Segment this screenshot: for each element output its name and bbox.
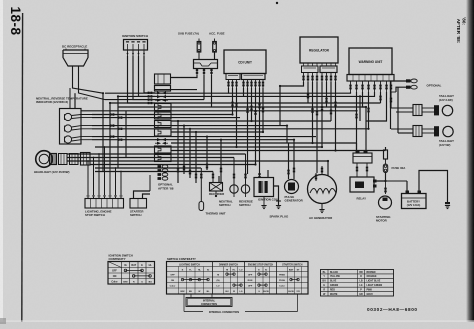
- page left margin highlight: [0, 0, 3, 329]
- wire vert x294: [293, 140, 295, 179]
- svg-text:OFF: OFF: [248, 285, 253, 287]
- wire vert x190: [189, 129, 191, 178]
- svg-text:WARNING UNIT: WARNING UNIT: [359, 60, 383, 64]
- wire optional feed 1: [391, 81, 407, 108]
- svg-text:RED: RED: [330, 289, 335, 291]
- wire ignition pin4 to harness: [144, 56, 155, 93]
- wire warning w2: [356, 92, 358, 153]
- svg-text:BLUE: BLUE: [330, 281, 337, 283]
- svg-text:BLACK: BLACK: [330, 271, 338, 274]
- wire regulator w3: [312, 82, 314, 143]
- table SWITCH CONTINUITY grid: [167, 262, 309, 295]
- connector taillight 2: [413, 126, 422, 137]
- svg-text:CONNECTION: CONNECTION: [201, 303, 217, 306]
- wire regulator w4: [316, 82, 318, 173]
- wire bulb1 b: [72, 117, 92, 120]
- inline bullets on CDI drop wires: [235, 103, 237, 105]
- svg-text:HEADLIGHT (12V 45/45W): HEADLIGHT (12V 45/45W): [34, 170, 70, 174]
- wire CDI w7: [255, 88, 257, 165]
- module WARNING UNIT body: [349, 48, 392, 75]
- svg-text:HL: HL: [149, 264, 153, 267]
- svg-text:ON: ON: [113, 275, 117, 278]
- wire bus y89.6: [155, 89, 197, 91]
- svg-text:LO: LO: [216, 285, 219, 287]
- svg-text:ACC. FUSE: ACC. FUSE: [209, 32, 225, 36]
- svg-text:FREE: FREE: [279, 274, 285, 276]
- svg-text:BAT: BAT: [131, 264, 136, 267]
- svg-text:SWITCH CONTINUITY: SWITCH CONTINUITY: [167, 257, 196, 261]
- headlight connector block 3: [81, 153, 91, 166]
- inline bullets on ignition wires: [148, 92, 150, 94]
- regulator connector blocks: [302, 66, 319, 73]
- wire fuse30A to relay: [377, 173, 386, 182]
- wire bus y96.4: [118, 95, 230, 97]
- wire bus y107 right: [327, 106, 367, 108]
- wire bus y143 right: [313, 142, 357, 144]
- svg-text:LB: LB: [359, 281, 362, 283]
- wire warning to relay: [356, 143, 358, 153]
- switch NEUTRAL SWITCH lead: [233, 158, 235, 185]
- fuse holder pins: [196, 69, 198, 76]
- wire bus y96.4 right: [244, 95, 361, 97]
- svg-text:BU: BU: [225, 291, 229, 293]
- module REGULATOR body: [300, 37, 338, 63]
- table IGNITION SWITCH CONTINUITY grid: [108, 262, 155, 285]
- pulse generator leads: [288, 179, 290, 181]
- wire vert x126: [125, 111, 127, 158]
- connector stack low A: [155, 146, 172, 153]
- wire bus y93.2 right: [229, 92, 341, 94]
- lamp TAILLIGHT 1 bulb: [422, 107, 434, 109]
- svg-text:MOTOR: MOTOR: [376, 219, 388, 223]
- connector DC RECEPTACLE body: [63, 50, 88, 66]
- wire fuse leads: [198, 52, 200, 60]
- wire CDI w8: [259, 88, 261, 178]
- svg-text:STOP SWITCH: STOP SWITCH: [85, 213, 105, 217]
- wire CDI w5: [247, 88, 249, 174]
- switch LIGHTING ENGINE STOP SWITCH connector: [85, 199, 124, 209]
- svg-text:RECTIFIER: RECTIFIER: [209, 192, 225, 196]
- wire bus y110.8: [81, 110, 357, 112]
- wire bus y147 right: [237, 146, 323, 148]
- svg-text:INDICATOR (12V/3W×3): INDICATOR (12V/3W×3): [36, 100, 68, 104]
- svg-text:Color: Color: [170, 285, 176, 287]
- connector stack mid B: [155, 112, 172, 119]
- transformer IGNITION COIL body: [254, 178, 274, 197]
- wire bulb2 b: [72, 129, 92, 130]
- wire ignition pin2 to harness: [133, 56, 155, 100]
- svg-text:G: G: [141, 282, 143, 284]
- svg-text:TAILLIGHT: TAILLIGHT: [439, 94, 454, 98]
- wire regulator w8: [335, 82, 337, 151]
- wire bus y125.6: [92, 125, 287, 127]
- rectifier leads: [212, 172, 214, 183]
- wire warning w8: [390, 92, 392, 108]
- svg-text:00302—HA8—6800: 00302—HA8—6800: [367, 307, 418, 312]
- wire vert x398 tail: [397, 87, 399, 133]
- wire bus y164.5: [90, 164, 256, 166]
- svg-text:BR: BR: [359, 272, 363, 274]
- svg-text:OFF: OFF: [112, 270, 117, 273]
- wire battery negative to ground: [419, 171, 448, 203]
- CDI connector blocks: [226, 74, 240, 80]
- wire warning w7: [366, 92, 387, 121]
- note INTERNAL CONNECTION small box: [186, 298, 232, 307]
- wire regulator w5: [321, 82, 323, 147]
- wire fuse pin1 down: [171, 75, 197, 78]
- svg-text:DIMMER SWITCH: DIMMER SWITCH: [219, 264, 238, 266]
- wire bus y157.5: [67, 157, 234, 159]
- svg-text:GREEN: GREEN: [330, 285, 339, 287]
- wire bus y121: [171, 120, 252, 122]
- wire fuse pin3 down: [211, 75, 213, 107]
- wire warning w4: [368, 92, 370, 129]
- headlight connector block 1: [59, 154, 68, 165]
- connector stack mid A: [155, 104, 172, 111]
- switch continuity link dots: [181, 278, 183, 280]
- wire vert x184: [183, 126, 185, 174]
- wire bus y161: [67, 160, 328, 162]
- wire vert x366: [365, 107, 367, 153]
- wire bus y171.5: [95, 171, 213, 173]
- wire vert x118: [117, 96, 119, 168]
- wire bus y150.5: [171, 150, 336, 152]
- wire bus y117.6: [92, 117, 240, 119]
- wire ignition pin1 to harness: [128, 56, 156, 103]
- wire regulator w2: [307, 82, 309, 103]
- svg-text:BU: BU: [189, 291, 193, 293]
- wire bus y143: [171, 142, 313, 144]
- indicator bulb 3 (temperature): [64, 136, 71, 143]
- diode RECTIFIER body: [210, 183, 223, 192]
- switch REVERSE SWITCH body: [241, 185, 249, 193]
- indicator bulb 1 (neutral): [64, 113, 71, 120]
- spark plug symbol: [276, 200, 281, 202]
- generator PULSE GENERATOR body: [285, 180, 299, 194]
- wire warning w5: [360, 92, 375, 96]
- svg-text:G: G: [323, 285, 325, 287]
- inline bullets on engine drop wires: [287, 170, 289, 172]
- motor STARTING MOTOR body: [379, 196, 392, 209]
- ignition coil ground: [263, 197, 265, 206]
- relay upper leads down: [356, 163, 358, 177]
- wire vert x103: [102, 93, 104, 171]
- connector stack mid D: [155, 129, 172, 136]
- switch NEUTRAL SWITCH body: [230, 185, 238, 193]
- svg-text:LIGHTING SWITCH: LIGHTING SWITCH: [179, 264, 200, 266]
- internal connection bracket ticks: [190, 294, 192, 298]
- wire bus y93.2: [105, 92, 215, 94]
- wire bus y132: [171, 131, 263, 133]
- wire vert x221: [220, 140, 222, 183]
- svg-text:INTERNAL CONNECTION: INTERNAL CONNECTION: [209, 311, 239, 314]
- wire fuse pin2 down: [203, 75, 205, 100]
- wire DC receptacle lead 2: [79, 66, 106, 100]
- wire CDI w6: [251, 88, 253, 121]
- svg-text:ENGINE STOP SWITCH: ENGINE STOP SWITCH: [248, 264, 274, 266]
- connector bullets triangle row: [157, 91, 161, 94]
- svg-text:AFTER ’88: AFTER ’88: [158, 187, 174, 191]
- fuse holder block: [194, 60, 218, 69]
- svg-text:SUB FUSE (7A): SUB FUSE (7A): [178, 32, 199, 36]
- headlight connector block 2: [70, 154, 79, 165]
- wire CDI w2: [232, 88, 234, 115]
- warning unit connector strip: [347, 75, 394, 82]
- regulator pins: [303, 63, 305, 66]
- speck top middle: [276, 2, 278, 4]
- generator AC GENERATOR body: [308, 175, 337, 204]
- svg-text:CDI UNIT: CDI UNIT: [238, 61, 252, 65]
- wire bulb feeds from top: [69, 88, 71, 109]
- svg-text:SWITCH: SWITCH: [239, 203, 250, 207]
- wire relay to battery: [386, 180, 408, 182]
- wire regulator w6: [326, 82, 328, 107]
- lighting switch wires down: [87, 161, 89, 199]
- page right dark edge: [466, 0, 474, 329]
- svg-text:18-8: 18-8: [8, 6, 23, 35]
- wire bus y168: [95, 167, 201, 169]
- svg-text:GR: GR: [359, 294, 363, 296]
- svg-text:(12V 12Ah): (12V 12Ah): [407, 203, 421, 207]
- relay output terminals: [373, 180, 377, 183]
- wire to relay lead2: [366, 147, 368, 153]
- wire bus y154: [67, 153, 246, 155]
- wire CDI w1: [215, 88, 229, 93]
- connector bullets triangle row 2: [157, 138, 161, 141]
- svg-text:LO: LO: [239, 269, 242, 271]
- fuse ACC FUSE body: [214, 39, 216, 42]
- svg-text:LG: LG: [359, 285, 362, 287]
- wire bus y150.5 right: [336, 150, 386, 152]
- starter switch wires: [134, 191, 151, 199]
- page bottom light scratch: [0, 321, 474, 322]
- wire bulb3 a: [72, 137, 92, 138]
- page divider line: [21, 13, 24, 326]
- wire DC receptacle lead 1: [73, 66, 104, 93]
- wire junction dots: [102, 92, 104, 94]
- table wire color code legend: [321, 270, 394, 297]
- svg-text:BATTERY: BATTERY: [407, 200, 420, 204]
- svg-text:SWITCH: SWITCH: [130, 213, 141, 217]
- svg-text:OPTIONAL: OPTIONAL: [427, 84, 442, 88]
- note INTERNAL CONNECTION bracket: [184, 311, 203, 313]
- fuse FUSE 30A body: [385, 147, 387, 150]
- CDI pins with bullets: [228, 80, 230, 89]
- svg-text:REGULATOR: REGULATOR: [309, 49, 330, 53]
- svg-text:Color: Color: [279, 285, 285, 287]
- connector optional bullets: [406, 79, 411, 82]
- svg-text:BROWN: BROWN: [367, 272, 376, 274]
- wire taillight upper feed: [391, 107, 414, 109]
- wire bus y128.8: [92, 128, 369, 130]
- wire vert x207: [206, 137, 208, 170]
- bottom left corner mark: [0, 318, 6, 324]
- lamp HEADLIGHT reflector: [36, 151, 53, 168]
- svg-text:W: W: [198, 291, 200, 293]
- svg-text:STARTER SWITCH: STARTER SWITCH: [282, 263, 303, 266]
- wire vert x391 tail: [390, 81, 392, 129]
- wire bulb1 a: [72, 115, 92, 116]
- wire taillight2 wires: [369, 128, 414, 130]
- wire vert x196: [195, 132, 197, 183]
- wire bulb3 b: [72, 140, 92, 141]
- wire vert x360: [359, 96, 361, 121]
- wire battery positive: [406, 181, 408, 191]
- AC generator ground: [321, 204, 323, 210]
- svg-text:IG: IG: [265, 269, 268, 271]
- svg-text:IG: IG: [124, 264, 127, 267]
- fuse SUB FUSE body: [198, 39, 200, 42]
- svg-text:ON: ON: [171, 280, 175, 282]
- wire bus y114.5: [92, 114, 233, 116]
- wire regulator w1: [280, 82, 304, 86]
- inline bullets on warning drops: [355, 114, 357, 116]
- svg-text:RELAY: RELAY: [357, 197, 367, 201]
- lighting switch pin labels: [87, 195, 90, 196]
- switch continuity sub columns: [178, 267, 180, 295]
- svg-text:GENERATOR: GENERATOR: [285, 199, 304, 203]
- svg-text:Y/R: Y/R: [296, 291, 300, 293]
- lamp cluster body: [60, 109, 82, 145]
- wire taillight1 wires: [391, 107, 413, 109]
- svg-text:O: O: [360, 276, 362, 278]
- wire coil HT lead to spark plug: [274, 186, 279, 201]
- svg-text:SWITCH: SWITCH: [219, 203, 230, 207]
- svg-text:AC GENERATOR: AC GENERATOR: [309, 216, 333, 220]
- svg-text:BL/W: BL/W: [263, 291, 268, 293]
- battery terminals: [406, 191, 410, 194]
- inline bullets on left bus: [110, 113, 112, 115]
- svg-text:PUSH: PUSH: [279, 280, 285, 282]
- svg-text:WHITE: WHITE: [330, 294, 338, 296]
- wire vert x178: [177, 121, 179, 183]
- svg-text:LIGHT BLUE: LIGHT BLUE: [367, 281, 381, 283]
- relay RELAY body: [350, 177, 374, 192]
- wire warning w1: [340, 92, 351, 93]
- svg-text:BU: BU: [149, 282, 153, 284]
- battery BATTERY body: [402, 194, 427, 209]
- wire vert x110: [109, 103, 111, 165]
- lamp TAILLIGHT 2 bulb: [422, 128, 434, 130]
- wire warning w3: [363, 92, 367, 107]
- svg-text:(N): (N): [216, 280, 219, 282]
- svg-text:LG: LG: [240, 291, 243, 293]
- svg-text:TAILLIGHT: TAILLIGHT: [439, 139, 454, 143]
- connector taillight 1: [413, 105, 422, 116]
- connector stack upper (6P): [155, 74, 171, 84]
- switch REVERSE SWITCH lead: [245, 154, 247, 185]
- svg-text:(12V 3.4W): (12V 3.4W): [439, 98, 453, 102]
- headlight bulb base: [50, 154, 57, 165]
- warning unit pins: [350, 81, 352, 92]
- wire stack to bus y89.6: [155, 89, 171, 91]
- wire bus y139.7: [92, 139, 294, 141]
- svg-text:GRAY: GRAY: [367, 293, 374, 296]
- svg-text:RUN: RUN: [248, 280, 253, 282]
- wire CDI w3: [236, 88, 238, 147]
- svg-text:IGNITION SWITCH: IGNITION SWITCH: [122, 34, 148, 38]
- svg-text:OFF: OFF: [248, 274, 253, 276]
- wire vert x288: [288, 143, 290, 179]
- relay upper connector block: [353, 153, 372, 163]
- battery ground symbol: [445, 202, 450, 204]
- wire vert x287: [286, 126, 288, 143]
- ignition coil primary leads: [259, 174, 261, 178]
- svg-text:PINK: PINK: [367, 289, 373, 291]
- connector stack mid C: [155, 121, 172, 128]
- svg-text:AFTER ’88:: AFTER ’88:: [456, 19, 461, 44]
- module CDI UNIT body: [224, 50, 266, 74]
- wire bus y103: [110, 102, 308, 104]
- wire vert x280: [279, 86, 281, 126]
- wire ignition pin3 to harness: [139, 56, 156, 96]
- wire regulator w7: [330, 82, 332, 121]
- AC generator leads: [315, 173, 317, 181]
- ignition switch pin stubs: [127, 50, 129, 56]
- thermo unit body: [199, 202, 204, 211]
- wire starting motor feed: [385, 181, 387, 194]
- svg-text:(12V 5W): (12V 5W): [439, 143, 450, 147]
- indicator bulb 2 (reverse): [64, 125, 71, 132]
- inline bullets on regulator drop wires: [307, 94, 309, 96]
- wire bus y103 right: [308, 102, 381, 104]
- wire bus y147: [95, 146, 237, 148]
- table ign continuity links: [124, 269, 127, 272]
- connector OPTIONAL AFTER '88 bullets: [158, 165, 162, 168]
- svg-text:SPARK PLUG: SPARK PLUG: [270, 215, 289, 219]
- wire bus y121 right: [252, 120, 332, 122]
- svg-text:W: W: [233, 291, 235, 293]
- svg-text:IGNITION COIL: IGNITION COIL: [258, 198, 279, 202]
- svg-text:IG: IG: [207, 269, 210, 271]
- svg-text:FUSE 30A: FUSE 30A: [392, 166, 407, 170]
- svg-text:B/W: B/W: [180, 291, 184, 293]
- svg-text:ORANGE: ORANGE: [367, 275, 378, 278]
- wire optional feed 2: [396, 87, 406, 92]
- switch STARTER SWITCH connector: [130, 199, 147, 209]
- svg-text:CONTINUITY: CONTINUITY: [109, 257, 126, 261]
- wire bulb2 a: [72, 126, 92, 127]
- wire CDI w9: [262, 88, 264, 132]
- svg-text:YELLOW: YELLOW: [330, 276, 341, 278]
- svg-text:BL/W: BL/W: [288, 291, 293, 293]
- thermo unit lead: [200, 168, 202, 202]
- svg-text:Color: Color: [111, 281, 117, 284]
- wire CDI w4: [230, 88, 244, 96]
- wire taillight lower feed: [368, 128, 370, 130]
- svg-text:OFF: OFF: [170, 274, 175, 276]
- wire bus y99.6: [105, 99, 204, 101]
- svg-text:LIGHT GREEN: LIGHT GREEN: [367, 285, 383, 287]
- connector stack low B: [155, 155, 172, 162]
- svg-text:BU: BU: [323, 281, 327, 283]
- svg-text:THERMO UNIT: THERMO UNIT: [206, 212, 226, 216]
- svg-text:’86:: ’86:: [462, 17, 467, 25]
- wire bus y107: [118, 106, 327, 108]
- wire bus y136.6: [92, 136, 316, 138]
- wire warning w6: [380, 92, 382, 103]
- svg-text:BAT: BAT: [289, 268, 294, 271]
- svg-text:DC RECEPTACLE: DC RECEPTACLE: [62, 45, 87, 49]
- switch IGNITION SWITCH body: [124, 40, 148, 51]
